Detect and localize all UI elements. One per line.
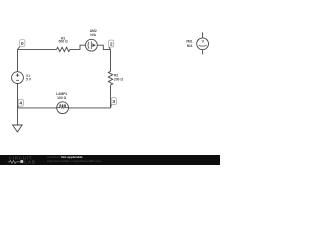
svg-text:4: 4 xyxy=(19,101,22,107)
svg-text:0: 0 xyxy=(21,41,24,47)
node flag bottom-left xyxy=(18,99,24,108)
ammeter AM2 xyxy=(86,29,98,51)
svg-text:http://circuitlab.com/c/6abee3: http://circuitlab.com/c/6abee38hcsnp xyxy=(47,159,101,163)
svg-text:100 Ω: 100 Ω xyxy=(57,96,66,100)
wire R1 to AM2 with step up xyxy=(70,45,86,49)
wire ground lead xyxy=(17,108,19,125)
svg-text:3: 3 xyxy=(112,99,115,105)
wire top rail left (corner to R1) xyxy=(18,48,57,50)
voltmeter VM1 xyxy=(186,32,209,54)
CircuitLab logo text CIRCUIT xyxy=(9,156,33,161)
resistor R1 xyxy=(57,36,70,51)
node flag top-right xyxy=(109,40,114,50)
svg-text:LAB: LAB xyxy=(24,160,36,165)
node flag bottom-right xyxy=(111,98,117,108)
lamp LAMP1 xyxy=(56,92,68,114)
CircuitLab logo zigzag xyxy=(8,160,20,163)
wire bottom rail left (LAMP1 to bottom-left corner) xyxy=(18,107,57,109)
watermark line 1 xyxy=(47,155,83,159)
wire right branch lower (R2 to bottom-right corner) xyxy=(110,85,112,108)
wire left branch top (corner to V1 top) xyxy=(17,49,19,71)
svg-text:200 Ω: 200 Ω xyxy=(114,78,123,82)
svg-text:2: 2 xyxy=(110,42,113,48)
watermark footer bar xyxy=(0,155,220,165)
resistor R2 xyxy=(108,71,123,85)
ground xyxy=(13,125,23,132)
svg-text:N/A: N/A xyxy=(90,33,96,37)
CircuitLab logo chip square xyxy=(20,160,23,163)
CircuitLab logo text LAB xyxy=(24,160,36,165)
node flag top-left xyxy=(18,40,25,50)
voltage source V1 xyxy=(12,72,32,84)
svg-text:N/A: N/A xyxy=(187,44,193,48)
wire right branch upper (corner to R2) xyxy=(110,50,112,72)
watermark line 2 url xyxy=(47,159,101,163)
wire bottom rail right (corner to LAMP1) xyxy=(69,107,111,109)
wire AM2 to top-right corner with step down xyxy=(97,45,110,49)
wire left branch bottom (V1 bottom to bottom-left corner) xyxy=(17,84,19,108)
svg-text:500 Ω: 500 Ω xyxy=(59,40,68,44)
svg-text:5 V: 5 V xyxy=(26,78,32,82)
